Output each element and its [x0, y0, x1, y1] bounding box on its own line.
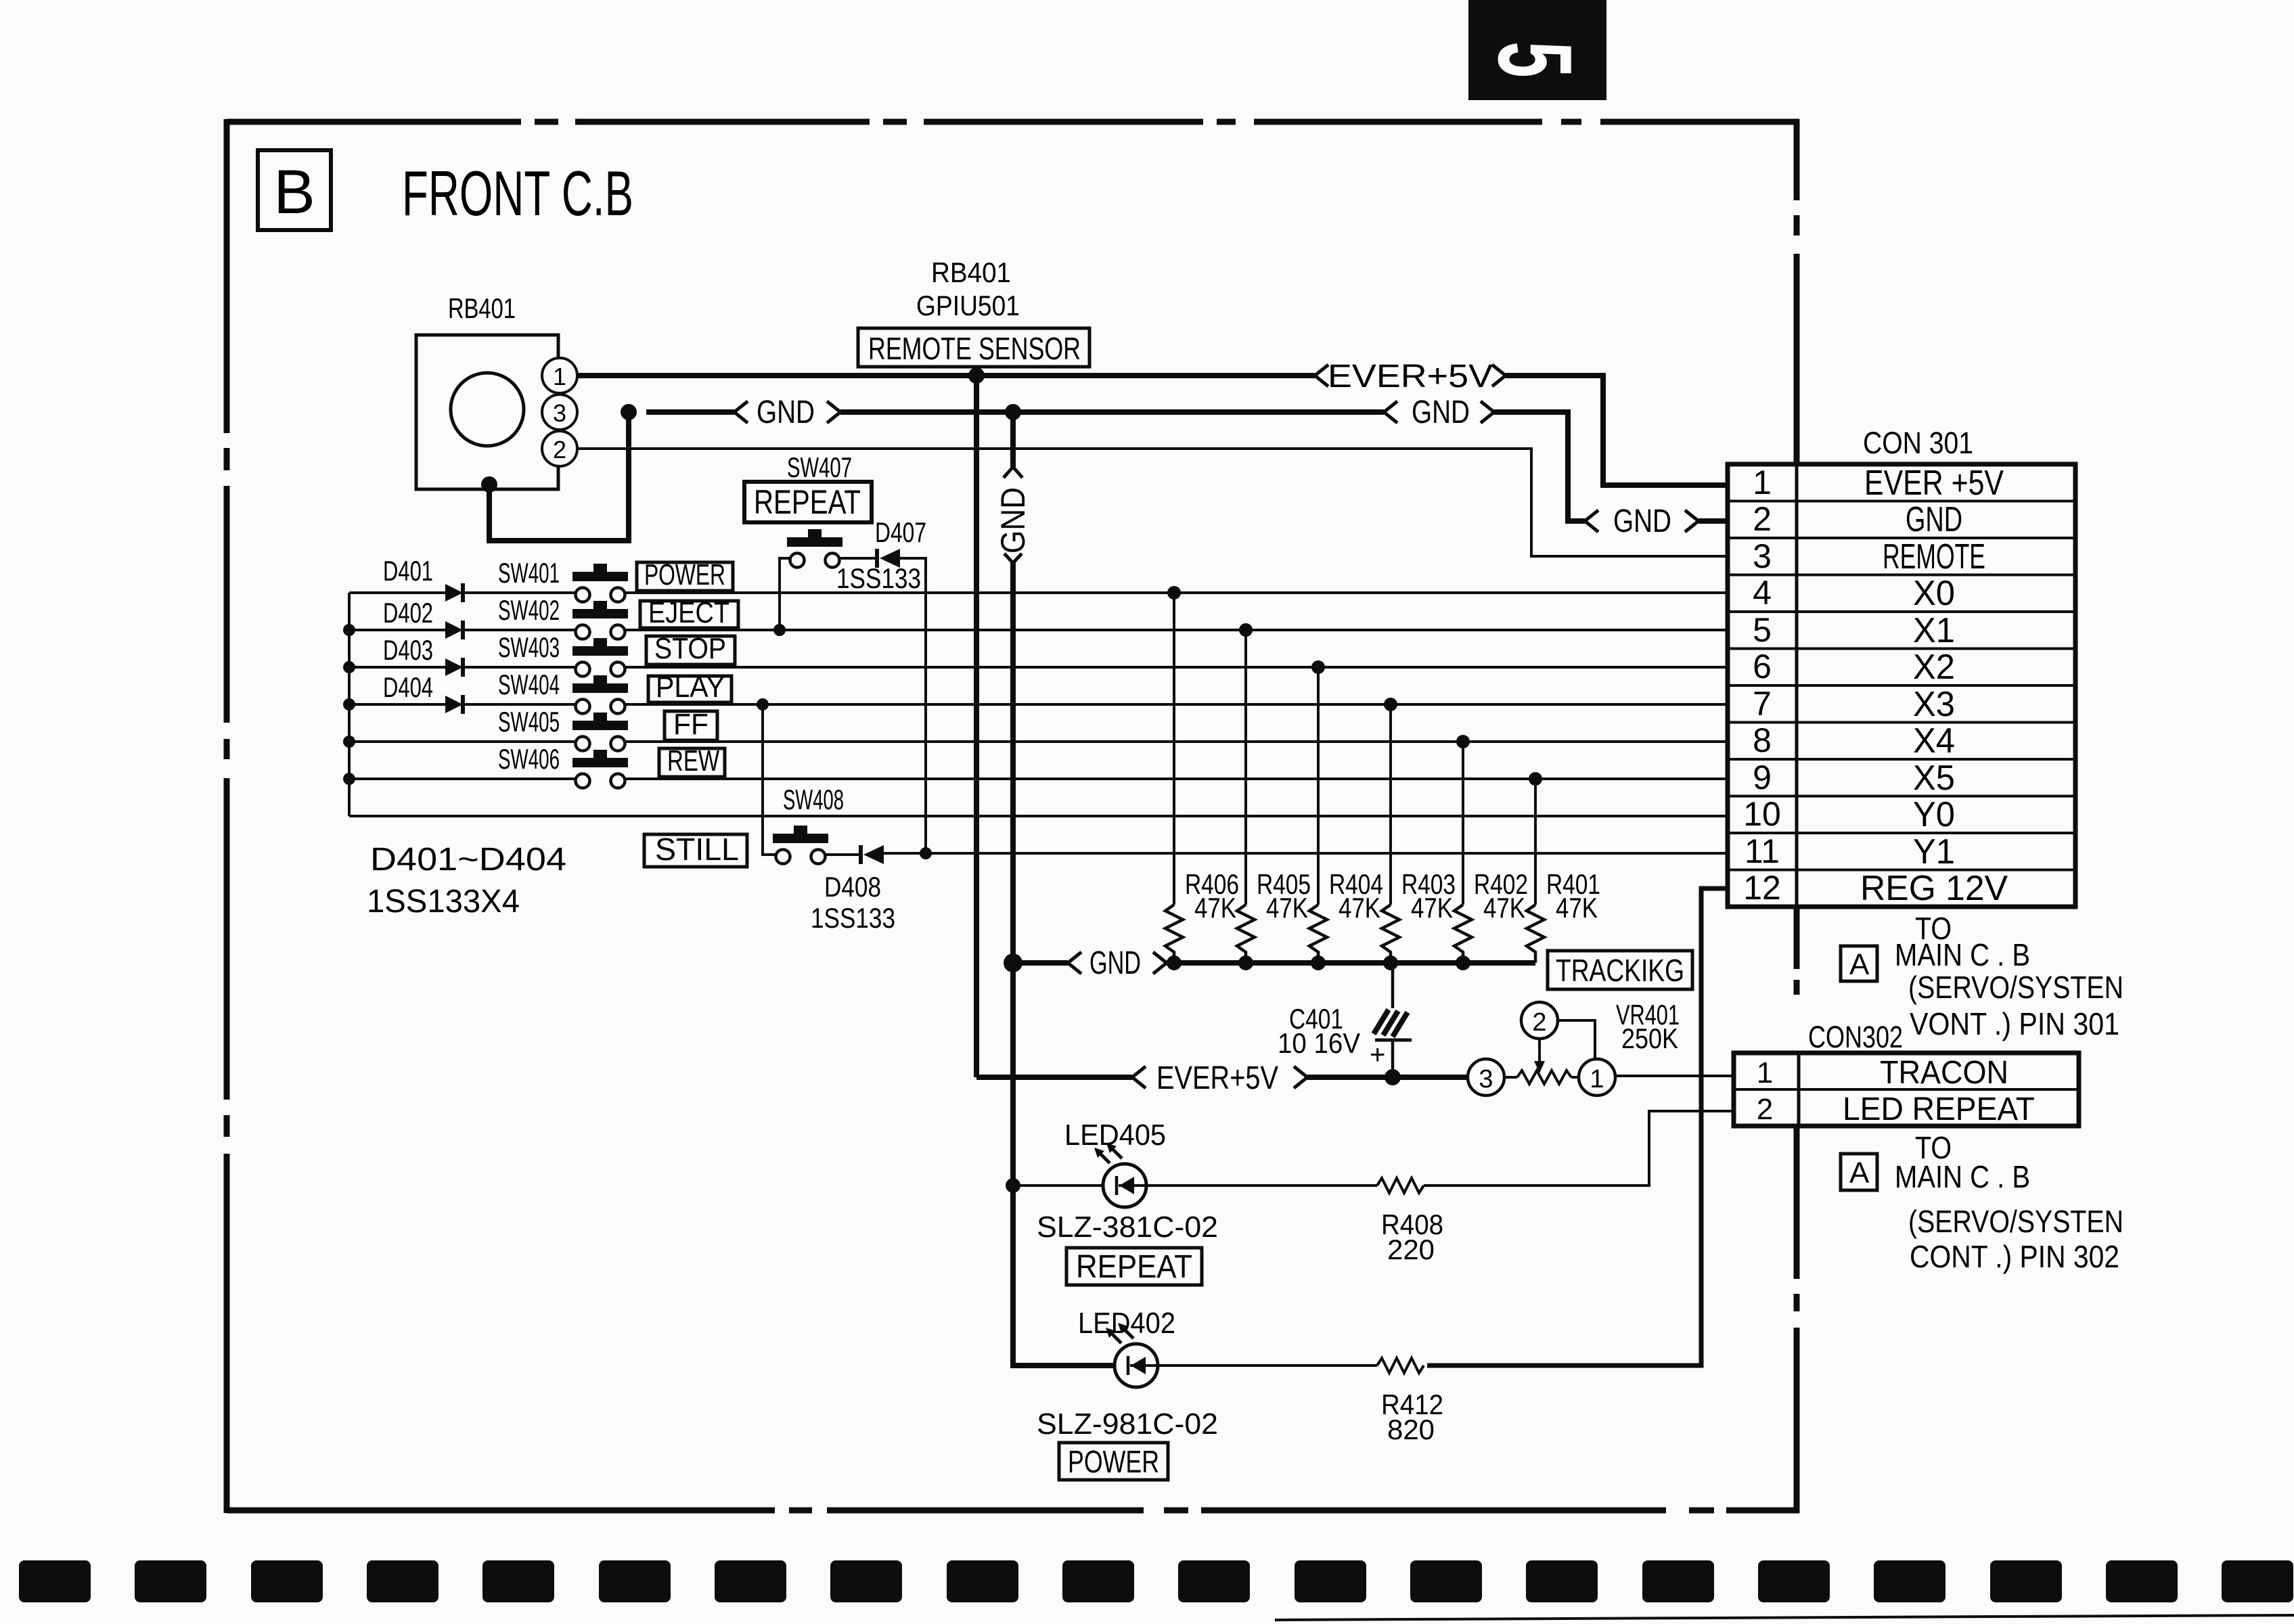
svg-text:SW403: SW403 [498, 631, 560, 663]
pin 1 EVER +5V of CON301 [1753, 464, 2004, 503]
svg-text:TRACKIKG: TRACKIKG [1556, 953, 1684, 988]
wire EVER+5V to VR401 [1307, 1075, 1468, 1080]
svg-text:1: 1 [1753, 464, 1772, 501]
svg-text:GPIU501: GPIU501 [916, 290, 1020, 321]
svg-text:3: 3 [1753, 537, 1772, 575]
resistor R403 [1382, 698, 1399, 963]
svg-text:REPEAT: REPEAT [754, 483, 861, 521]
svg-text:5: 5 [1476, 41, 1593, 77]
pin 4 X0 of CON301 [1753, 574, 1955, 613]
junction bus X3 [343, 698, 355, 710]
svg-text:1: 1 [1590, 1065, 1604, 1093]
junction bus X4 [343, 736, 355, 748]
wire GND stub down with break [1004, 412, 1022, 478]
svg-text:REMOTE SENSOR: REMOTE SENSOR [868, 331, 1081, 366]
svg-text:2: 2 [1757, 1093, 1773, 1126]
pin 1 TRACON of CON302 [1757, 1055, 2008, 1091]
label R401 47K [1546, 868, 1600, 924]
wire GND vertical run to bus [1004, 554, 1022, 963]
svg-text:10 16V: 10 16V [1278, 1027, 1360, 1059]
svg-text:RB401: RB401 [931, 256, 1011, 288]
wire D407 to Y1 [900, 558, 926, 853]
wire to LED405 [1013, 1184, 1103, 1187]
junction GND at pin3 [621, 404, 637, 420]
wire RB401 case to GND node [489, 412, 629, 541]
diode D403 [445, 658, 463, 677]
svg-text:STILL: STILL [655, 832, 739, 867]
wire EVER+5V bottom run [976, 1075, 1132, 1080]
label box FF [665, 708, 717, 741]
label R412 820 [1381, 1389, 1443, 1445]
node EVER+5V label bottom [1132, 1060, 1307, 1096]
note TO A MAIN C.B PIN 302 [1841, 1130, 2123, 1274]
label box EJECT [640, 596, 738, 629]
svg-text:SW402: SW402 [498, 594, 560, 626]
pin 8 X4 of CON301 [1753, 721, 1955, 761]
node EVER+5V label top [1315, 359, 1506, 394]
wire TRACON to CON302 pin1 [1615, 1075, 1734, 1077]
svg-text:820: 820 [1387, 1414, 1435, 1445]
svg-text:GND: GND [994, 487, 1032, 554]
junction SW408 on X3 [757, 698, 769, 710]
svg-text:MAIN C . B: MAIN C . B [1895, 1159, 2030, 1194]
wire REG 12V from CON301 pin12 [1427, 888, 1728, 1366]
svg-text:4: 4 [1753, 574, 1772, 612]
svg-text:X1: X1 [1913, 611, 1955, 650]
svg-text:PLAY: PLAY [656, 671, 725, 704]
svg-text:1SS133: 1SS133 [811, 902, 895, 934]
wire EVER+5V from pin1 [577, 373, 1315, 378]
label RB401 GPIU501 REMOTE SENSOR [858, 256, 1089, 367]
svg-text:GND: GND [1412, 394, 1470, 430]
junctions resistor bottoms [1167, 955, 1470, 970]
svg-text:X0: X0 [1913, 574, 1955, 613]
svg-text:GND: GND [757, 394, 815, 430]
LED LED402 [1106, 1323, 1158, 1387]
pin 1 of VR401 [1579, 1059, 1615, 1096]
node GND label right [1384, 394, 1494, 430]
wire X1 row EJECT [349, 629, 1728, 631]
node GND label at pin2 [1585, 503, 1699, 539]
svg-text:SW405: SW405 [498, 706, 560, 738]
svg-text:X4: X4 [1913, 721, 1955, 761]
svg-text:X2: X2 [1913, 648, 1955, 687]
svg-text:POWER: POWER [1068, 1444, 1159, 1479]
bottom rule line [1275, 1615, 2294, 1620]
pin 1 of RB401 [542, 358, 577, 393]
switch SW407 [787, 529, 842, 568]
LED LED405 [1094, 1143, 1146, 1207]
diode D408 [861, 845, 884, 864]
svg-text:REW: REW [667, 744, 719, 777]
node GND bus label [1068, 945, 1167, 981]
diode D404 [445, 695, 463, 714]
resistor R405 [1237, 623, 1255, 963]
wire X0 row POWER [349, 591, 1728, 594]
svg-text:X5: X5 [1913, 759, 1955, 798]
wire EVER+5V vertical run [974, 376, 979, 1077]
pin 12 REG 12V of CON301 [1743, 869, 2008, 908]
potentiometer VR401 element [1504, 1070, 1579, 1084]
svg-text:47K: 47K [1339, 892, 1380, 924]
svg-text:8: 8 [1753, 721, 1772, 759]
wire R408 to CON302 pin2 [1424, 1111, 1734, 1186]
label R408 220 [1381, 1209, 1443, 1265]
wire SW408 right to D408 [826, 853, 859, 856]
svg-text:D404: D404 [383, 671, 433, 703]
resistor R404 [1309, 660, 1327, 963]
pin 6 X2 of CON301 [1753, 648, 1955, 687]
svg-text:1SS133X4: 1SS133X4 [367, 884, 520, 920]
svg-text:6: 6 [1753, 648, 1772, 685]
svg-text:47K: 47K [1556, 892, 1598, 924]
junction SW407 on X1 [773, 624, 786, 636]
svg-text:SW408: SW408 [783, 784, 844, 815]
junction bus X2 [343, 661, 355, 673]
label C401 10 16V [1278, 1003, 1360, 1059]
resistor R408 [1377, 1178, 1424, 1193]
svg-text:D408: D408 [824, 871, 881, 903]
wire Y0 row [349, 815, 1728, 817]
wire REMOTE from pin2 to CON301 pin3 [577, 449, 1728, 556]
wire SW407 left contact to X1 [780, 558, 790, 630]
note TO A MAIN C.B PIN 301 [1841, 911, 2123, 1041]
wire X4 row FF [349, 740, 1728, 743]
diode D407 [877, 549, 900, 568]
switch SW403 [572, 638, 628, 677]
pin 10 Y0 of CON301 [1743, 795, 1955, 834]
svg-text:LED402: LED402 [1078, 1307, 1175, 1340]
pin 5 X1 of CON301 [1753, 611, 1955, 650]
diode D402 [445, 621, 463, 639]
frame border bottom [227, 1508, 1799, 1514]
svg-text:12: 12 [1743, 869, 1781, 907]
pin 3 of VR401 [1468, 1059, 1504, 1096]
svg-text:250K: 250K [1621, 1022, 1678, 1054]
svg-text:1SS133: 1SS133 [836, 562, 921, 594]
svg-text:RB401: RB401 [448, 292, 516, 324]
svg-text:D407: D407 [875, 516, 926, 548]
svg-text:EVER+5V: EVER+5V [1156, 1060, 1278, 1096]
pin 2 of VR401 [1521, 1002, 1558, 1039]
svg-text:POWER: POWER [644, 558, 725, 591]
svg-text:Y0: Y0 [1913, 795, 1955, 834]
svg-text:LED405: LED405 [1064, 1119, 1166, 1152]
label box TRACKIKG [1548, 951, 1692, 989]
svg-text:SW404: SW404 [498, 669, 560, 700]
svg-text:LED REPEAT: LED REPEAT [1843, 1091, 2035, 1127]
svg-text:1: 1 [1757, 1056, 1773, 1089]
svg-text:47K: 47K [1411, 892, 1453, 924]
svg-text:2: 2 [1532, 1008, 1546, 1037]
frame border right [1794, 119, 1800, 1513]
svg-text:1: 1 [553, 363, 566, 390]
pin 3 of RB401 [542, 394, 577, 430]
label box REW [659, 744, 725, 777]
label box POWER bottom [1059, 1443, 1168, 1480]
capacitor C401 [1370, 963, 1412, 1077]
svg-text:EVER+5V: EVER+5V [1328, 359, 1493, 394]
svg-text:EVER +5V: EVER +5V [1864, 464, 2004, 503]
label VR401 250K [1616, 999, 1680, 1054]
junction GND bus big [1004, 953, 1022, 972]
svg-text:VONT .) PIN 301: VONT .) PIN 301 [1910, 1006, 2119, 1041]
pin 2 LED REPEAT of CON302 [1757, 1091, 2035, 1127]
frame border top [227, 119, 1799, 125]
wire GND bus under resistors [1013, 960, 1068, 966]
wire LED405 to R408 [1146, 1184, 1377, 1187]
svg-text:7: 7 [1753, 685, 1772, 723]
svg-text:D401~D404: D401~D404 [370, 842, 566, 878]
switch SW404 [572, 675, 628, 714]
svg-text:MAIN C . B: MAIN C . B [1895, 937, 2030, 972]
wire switch common bus [348, 593, 351, 816]
pin 2 GND of CON301 [1753, 500, 1962, 539]
svg-text:CONT .) PIN 302: CONT .) PIN 302 [1910, 1239, 2119, 1274]
film sprocket marks [19, 1560, 2293, 1602]
svg-text:SW407: SW407 [787, 451, 852, 483]
svg-text:220: 220 [1387, 1234, 1435, 1265]
svg-text:47K: 47K [1266, 892, 1308, 924]
svg-text:11: 11 [1745, 832, 1780, 870]
svg-text:STOP: STOP [654, 632, 726, 665]
svg-text:A: A [1849, 948, 1870, 981]
junction LED405 anode tap [1006, 1178, 1020, 1193]
node GND label left [734, 394, 840, 430]
switch SW406 [572, 750, 628, 788]
label box REPEAT top [744, 482, 872, 522]
svg-text:(SERVO/SYSTEN: (SERVO/SYSTEN [1908, 970, 2123, 1005]
svg-text:A: A [1849, 1156, 1870, 1190]
label R405 47K [1257, 868, 1311, 924]
svg-text:GND: GND [1613, 503, 1671, 539]
svg-text:GND: GND [1906, 500, 1962, 539]
junction bus X1 [343, 624, 355, 636]
svg-text:10: 10 [1743, 795, 1781, 833]
svg-text:+: + [1370, 1040, 1385, 1070]
connector CON302 table [1734, 1053, 2079, 1126]
svg-text:SW406: SW406 [498, 743, 560, 775]
junction C401 on EVER+5V [1385, 1069, 1401, 1085]
wire X5 row REW [349, 777, 1728, 780]
svg-text:3: 3 [1479, 1065, 1493, 1093]
wiper arrow of VR401 [1534, 1039, 1545, 1073]
svg-text:B: B [273, 158, 315, 227]
label box STILL [644, 832, 747, 867]
label box STOP [646, 632, 735, 665]
svg-text:2: 2 [553, 436, 566, 464]
svg-text:SW401: SW401 [498, 557, 560, 589]
svg-text:(SERVO/SYSTEN: (SERVO/SYSTEN [1908, 1204, 2123, 1239]
pin 9 X5 of CON301 [1753, 759, 1955, 798]
switch SW401 [572, 564, 628, 602]
page number tab 5 [1468, 0, 1606, 100]
diode D401 [445, 583, 463, 602]
wire GND stub into pin2 [1699, 518, 1728, 524]
junction bus X5 [343, 773, 355, 785]
svg-text:X3: X3 [1913, 685, 1955, 724]
label R406 47K [1185, 868, 1239, 924]
svg-text:REPEAT: REPEAT [1076, 1249, 1192, 1285]
svg-text:REG 12V: REG 12V [1860, 869, 2008, 908]
svg-text:FRONT C.B: FRONT C.B [402, 158, 633, 229]
label R403 47K [1401, 868, 1456, 924]
switch SW408 [773, 826, 828, 864]
junction D407 on Y1 [920, 847, 932, 859]
svg-text:CON302: CON302 [1808, 1020, 1903, 1054]
svg-text:EJECT: EJECT [648, 596, 729, 629]
svg-text:FF: FF [673, 708, 709, 741]
pin 3 REMOTE of CON301 [1753, 537, 1985, 577]
label box PLAY [648, 671, 732, 704]
junction RB401 case [481, 476, 497, 493]
svg-text:GND: GND [1089, 945, 1141, 981]
connector CON301 table [1728, 464, 2075, 907]
label box REPEAT bottom [1066, 1248, 1202, 1285]
pin 7 X3 of CON301 [1753, 685, 1955, 724]
resistor R401 [1527, 772, 1544, 963]
switch SW405 [572, 713, 628, 751]
svg-text:CON 301: CON 301 [1863, 426, 1973, 460]
svg-text:D402: D402 [383, 597, 433, 629]
svg-text:D403: D403 [383, 634, 433, 666]
svg-text:Y1: Y1 [1913, 832, 1955, 872]
wire SW408 left contact to X3 [763, 704, 775, 855]
resistor R406 [1165, 586, 1183, 963]
label R404 47K [1329, 868, 1383, 924]
wire GND down to LEDs [1013, 963, 1115, 1366]
wire X2 row STOP [349, 666, 1728, 669]
svg-text:D401: D401 [383, 555, 433, 587]
svg-text:SLZ-981C-02: SLZ-981C-02 [1037, 1407, 1218, 1441]
wire GND to CON301 pin2 [1494, 412, 1585, 521]
svg-text:TRACON: TRACON [1880, 1055, 2008, 1091]
svg-text:5: 5 [1753, 611, 1772, 649]
frame border left [224, 119, 230, 1513]
svg-text:3: 3 [553, 399, 566, 427]
svg-text:9: 9 [1753, 759, 1772, 796]
wire GND bus right part [1167, 960, 1535, 966]
wire SW407 right to D407 [840, 557, 875, 560]
resistor R402 [1454, 735, 1472, 963]
wire LED402 to R412 [1158, 1364, 1377, 1367]
svg-text:SLZ-381C-02: SLZ-381C-02 [1037, 1211, 1218, 1244]
pin 2 of RB401 [542, 431, 577, 466]
pin 11 Y1 of CON301 [1745, 832, 1955, 872]
section label B [258, 150, 331, 230]
junction GND vertical tap [1005, 404, 1021, 420]
wire VR401 pin2 to pin1 [1558, 1020, 1595, 1058]
wire X3 row PLAY [349, 703, 1728, 706]
svg-text:47K: 47K [1483, 892, 1525, 924]
svg-text:REMOTE: REMOTE [1883, 537, 1985, 577]
label R402 47K [1474, 868, 1528, 924]
remote sensor RB401 body [416, 335, 558, 489]
wire GND middle [840, 409, 1384, 415]
wire EVER+5V to CON301 pin1 [1506, 376, 1728, 485]
wire GND from pin3 [646, 409, 734, 415]
label box POWER [637, 558, 733, 591]
svg-text:2: 2 [1753, 500, 1772, 538]
switch SW402 [572, 601, 628, 639]
junction EVER+5V vertical tap [968, 367, 985, 384]
resistor R412 [1377, 1358, 1424, 1373]
svg-text:47K: 47K [1194, 892, 1236, 924]
wire Y1 row [884, 852, 1728, 855]
